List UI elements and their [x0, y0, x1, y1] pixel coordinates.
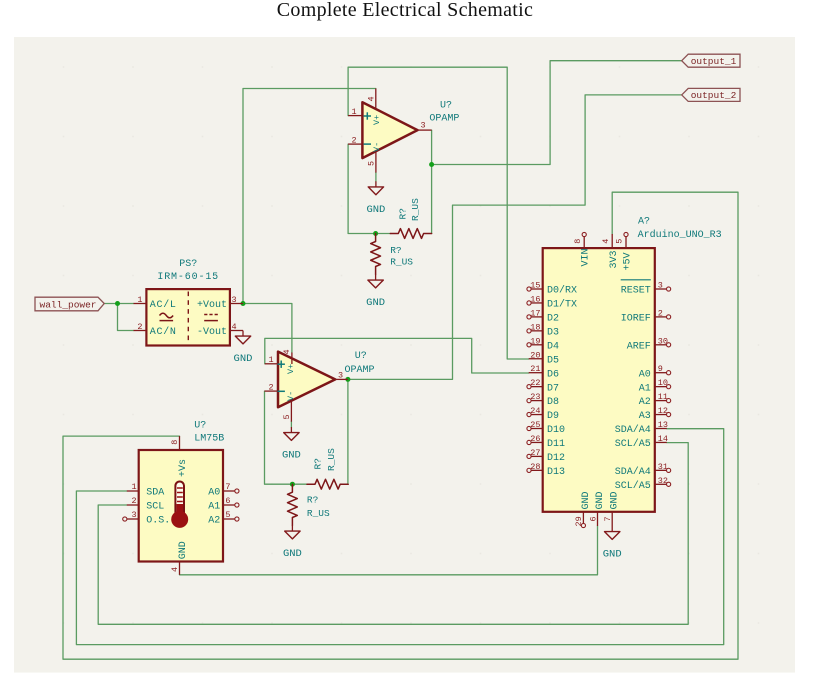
svg-text:2: 2 — [658, 308, 663, 318]
svg-text:GND: GND — [178, 541, 189, 559]
svg-text:R_US: R_US — [326, 448, 337, 471]
svg-text:4: 4 — [367, 96, 377, 101]
svg-text:A1: A1 — [639, 383, 651, 394]
svg-text:15: 15 — [530, 281, 540, 291]
svg-text:R?: R? — [307, 495, 318, 506]
svg-text:D8: D8 — [547, 397, 559, 408]
svg-text:7: 7 — [603, 516, 613, 521]
svg-text:AREF: AREF — [627, 341, 651, 352]
svg-text:IRM-60-15: IRM-60-15 — [157, 272, 219, 283]
svg-text:LM75B: LM75B — [194, 433, 224, 444]
svg-text:12: 12 — [658, 406, 668, 416]
svg-text:9: 9 — [658, 364, 663, 374]
svg-text:1: 1 — [351, 107, 356, 117]
svg-text:AC/L: AC/L — [150, 299, 177, 311]
svg-text:V+: V+ — [286, 364, 296, 374]
svg-text:3: 3 — [131, 510, 136, 520]
svg-text:D13: D13 — [547, 467, 565, 478]
svg-text:2: 2 — [131, 496, 136, 506]
svg-text:GND: GND — [366, 204, 385, 216]
svg-text:PS?: PS? — [179, 259, 197, 270]
svg-text:4: 4 — [282, 349, 292, 354]
svg-text:GND: GND — [581, 491, 592, 509]
svg-text:25: 25 — [530, 420, 540, 430]
svg-text:31: 31 — [658, 462, 668, 472]
svg-text:32: 32 — [658, 476, 668, 486]
svg-text:D3: D3 — [547, 327, 559, 338]
svg-text:+5V: +5V — [623, 252, 634, 270]
svg-text:A0: A0 — [208, 488, 220, 499]
svg-text:OPAMP: OPAMP — [429, 113, 459, 124]
svg-text:29: 29 — [574, 516, 584, 526]
svg-text:20: 20 — [530, 350, 540, 360]
svg-text:wall_power: wall_power — [40, 299, 97, 310]
svg-text:A0: A0 — [639, 369, 651, 380]
svg-text:D5: D5 — [547, 355, 559, 366]
svg-text:D7: D7 — [547, 383, 559, 394]
svg-text:27: 27 — [530, 448, 540, 458]
svg-text:RESET: RESET — [621, 286, 651, 297]
svg-text:R_US: R_US — [410, 198, 421, 221]
svg-text:D1/TX: D1/TX — [547, 299, 577, 311]
svg-text:4: 4 — [170, 567, 180, 572]
svg-text:U?: U? — [194, 421, 206, 432]
svg-text:21: 21 — [530, 364, 540, 374]
svg-text:A1: A1 — [208, 502, 220, 513]
svg-text:GND: GND — [603, 549, 622, 561]
svg-text:D12: D12 — [547, 453, 565, 464]
svg-text:AC/N: AC/N — [150, 326, 177, 338]
svg-text:8: 8 — [170, 440, 180, 445]
svg-text:GND: GND — [595, 491, 606, 509]
svg-text:24: 24 — [530, 406, 540, 416]
svg-text:R?: R? — [313, 458, 324, 469]
svg-text:GND: GND — [366, 297, 385, 309]
svg-text:3: 3 — [232, 295, 237, 305]
svg-text:V+: V+ — [372, 115, 382, 125]
svg-text:3: 3 — [658, 281, 663, 291]
svg-text:26: 26 — [530, 434, 540, 444]
svg-text:D9: D9 — [547, 411, 559, 422]
svg-text:2: 2 — [351, 135, 356, 145]
svg-text:4: 4 — [601, 239, 611, 244]
svg-text:U?: U? — [355, 351, 367, 362]
svg-text:6: 6 — [588, 516, 598, 521]
svg-text:SDA: SDA — [146, 488, 164, 499]
svg-text:+Vs: +Vs — [178, 459, 189, 477]
svg-text:IOREF: IOREF — [621, 314, 651, 325]
svg-text:A2: A2 — [639, 397, 651, 408]
svg-text:R_US: R_US — [307, 508, 330, 519]
svg-text:D11: D11 — [547, 439, 565, 450]
svg-text:5: 5 — [367, 161, 377, 166]
svg-text:R_US: R_US — [390, 257, 413, 268]
svg-text:1: 1 — [268, 355, 273, 365]
svg-text:5: 5 — [225, 510, 230, 520]
svg-text:output_1: output_1 — [691, 56, 737, 67]
svg-text:6: 6 — [225, 496, 230, 506]
svg-text:17: 17 — [530, 308, 540, 318]
svg-text:2: 2 — [137, 322, 142, 332]
svg-text:A3: A3 — [639, 411, 651, 422]
svg-text:D0/RX: D0/RX — [547, 285, 577, 297]
svg-text:GND: GND — [283, 548, 302, 560]
svg-text:14: 14 — [658, 434, 668, 444]
svg-text:GND: GND — [610, 491, 621, 509]
svg-text:19: 19 — [530, 336, 540, 346]
svg-text:GND: GND — [234, 353, 253, 365]
svg-text:SDA/A4: SDA/A4 — [615, 424, 651, 436]
svg-text:D4: D4 — [547, 341, 559, 352]
svg-text:13: 13 — [658, 420, 668, 430]
svg-text:O.S.: O.S. — [146, 516, 170, 527]
svg-text:Arduino_UNO_R3: Arduino_UNO_R3 — [638, 229, 722, 241]
svg-text:A2: A2 — [208, 516, 220, 527]
svg-text:-Vout: -Vout — [197, 327, 227, 338]
svg-text:V-: V- — [286, 391, 296, 401]
svg-text:11: 11 — [658, 392, 668, 402]
svg-text:1: 1 — [137, 295, 142, 305]
svg-text:2: 2 — [268, 382, 273, 392]
svg-text:10: 10 — [658, 378, 668, 388]
svg-text:U?: U? — [440, 101, 452, 112]
svg-text:8: 8 — [573, 239, 583, 244]
svg-text:OPAMP: OPAMP — [345, 365, 375, 376]
svg-text:22: 22 — [530, 378, 540, 388]
svg-text:16: 16 — [530, 294, 540, 304]
svg-text:7: 7 — [225, 482, 230, 492]
svg-text:28: 28 — [530, 462, 540, 472]
svg-text:3: 3 — [338, 371, 343, 381]
svg-text:4: 4 — [232, 322, 237, 332]
svg-text:D6: D6 — [547, 369, 559, 380]
svg-text:1: 1 — [131, 482, 136, 492]
svg-text:R?: R? — [398, 208, 409, 219]
svg-text:SCL/A5: SCL/A5 — [615, 480, 651, 492]
svg-text:5: 5 — [282, 414, 292, 419]
svg-text:SCL: SCL — [146, 502, 164, 513]
svg-text:23: 23 — [530, 392, 540, 402]
svg-text:R?: R? — [390, 245, 401, 256]
svg-text:VIN: VIN — [581, 248, 592, 266]
svg-text:D2: D2 — [547, 314, 559, 325]
svg-text:18: 18 — [530, 322, 540, 332]
svg-text:3V3: 3V3 — [609, 250, 620, 268]
svg-text:A?: A? — [638, 217, 650, 228]
svg-text:5: 5 — [615, 239, 625, 244]
svg-text:output_2: output_2 — [691, 90, 737, 101]
svg-text:V-: V- — [372, 142, 382, 152]
svg-text:+Vout: +Vout — [197, 300, 227, 311]
svg-text:SCL/A5: SCL/A5 — [615, 438, 651, 450]
svg-text:3: 3 — [420, 121, 425, 131]
svg-text:30: 30 — [658, 336, 668, 346]
svg-text:GND: GND — [282, 450, 301, 462]
svg-text:D10: D10 — [547, 425, 565, 436]
svg-text:SDA/A4: SDA/A4 — [615, 466, 651, 478]
